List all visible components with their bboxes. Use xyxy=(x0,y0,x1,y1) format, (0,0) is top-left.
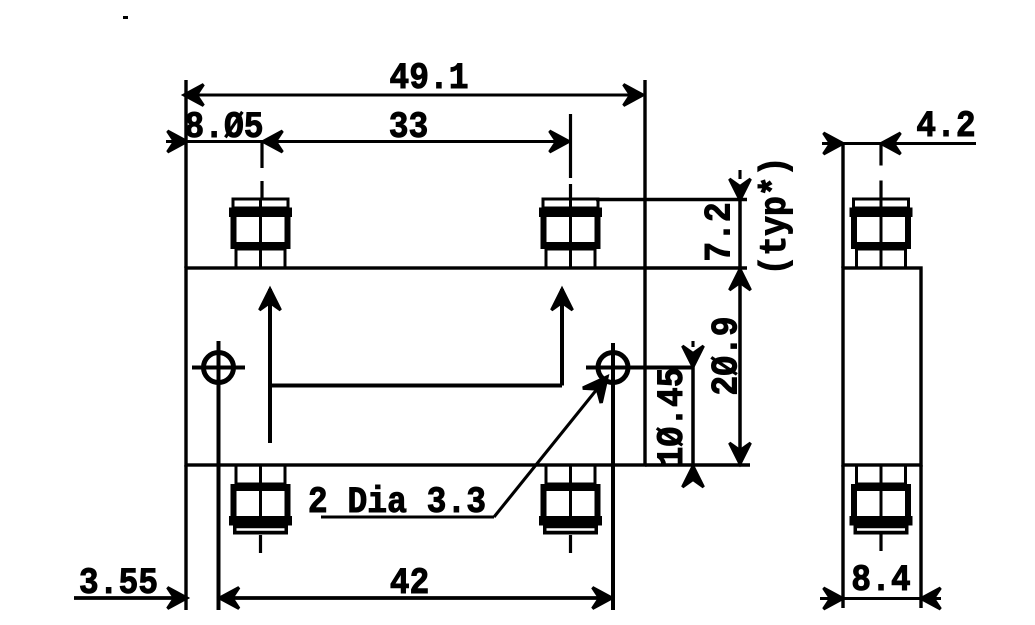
connector bottom-left xyxy=(229,465,292,535)
centerline bottom-left connector tail xyxy=(259,535,262,553)
connector side-bottom xyxy=(850,465,913,535)
dimension 8.4 side xyxy=(820,597,941,600)
svg-text:3.55: 3.55 xyxy=(79,562,158,604)
centerline top-left connector dashed xyxy=(260,143,263,199)
svg-text:7.2: 7.2 xyxy=(699,202,741,261)
svg-text:42: 42 xyxy=(390,562,430,604)
svg-text:(typ*): (typ*) xyxy=(754,157,796,276)
right hole centerline vertical xyxy=(611,343,615,610)
body bottom line extension right xyxy=(645,463,750,466)
svg-text:2Ø.9: 2Ø.9 xyxy=(706,316,748,395)
connector side-top xyxy=(850,199,913,268)
svg-text:4.2: 4.2 xyxy=(916,105,975,147)
svg-text:33: 33 xyxy=(389,106,429,148)
leader 2 Dia 3.3 xyxy=(321,378,606,517)
dimension 4.2 side xyxy=(822,142,976,145)
body front view xyxy=(186,268,645,465)
left hole centerline vertical xyxy=(217,341,221,610)
extension line right edge above body xyxy=(643,80,646,268)
svg-text:8.Ø5: 8.Ø5 xyxy=(184,106,263,148)
dimension 8.05 / 33 xyxy=(166,140,569,143)
connector top-right xyxy=(539,199,602,268)
mounting hole right xyxy=(586,353,693,383)
svg-text:1Ø.45: 1Ø.45 xyxy=(651,368,693,467)
svg-text:8.4: 8.4 xyxy=(851,559,910,601)
dimension 3.55 / 42 xyxy=(74,596,612,600)
extension line left edge above body xyxy=(184,80,187,268)
top cap line extension (7.2 upper reference) xyxy=(596,198,747,201)
side body edges extension down xyxy=(841,465,844,608)
dimension 10.45 xyxy=(691,341,695,464)
side view body xyxy=(843,268,921,465)
extension line left edge below body xyxy=(184,465,187,610)
side body left edge extension up xyxy=(841,144,844,269)
mounting hole left xyxy=(192,353,245,383)
connector bottom-right xyxy=(539,465,602,535)
dimension 49.1 xyxy=(184,93,643,96)
internal flow arrows xyxy=(270,289,562,443)
svg-text:49.1: 49.1 xyxy=(389,57,468,99)
svg-text:2 Dia 3.3: 2 Dia 3.3 xyxy=(308,481,486,523)
centerline side-top connector dashed xyxy=(879,144,882,201)
body top line extension right xyxy=(645,266,747,269)
scan speck xyxy=(123,16,128,19)
centerline top-right connector xyxy=(569,114,572,178)
centerline bottom-right connector tail xyxy=(569,535,572,553)
dimension 7.2 / 20.9 vertical line xyxy=(738,170,742,465)
centerline side-bottom connector tail xyxy=(879,531,882,551)
connector top-left U xyxy=(229,199,292,268)
